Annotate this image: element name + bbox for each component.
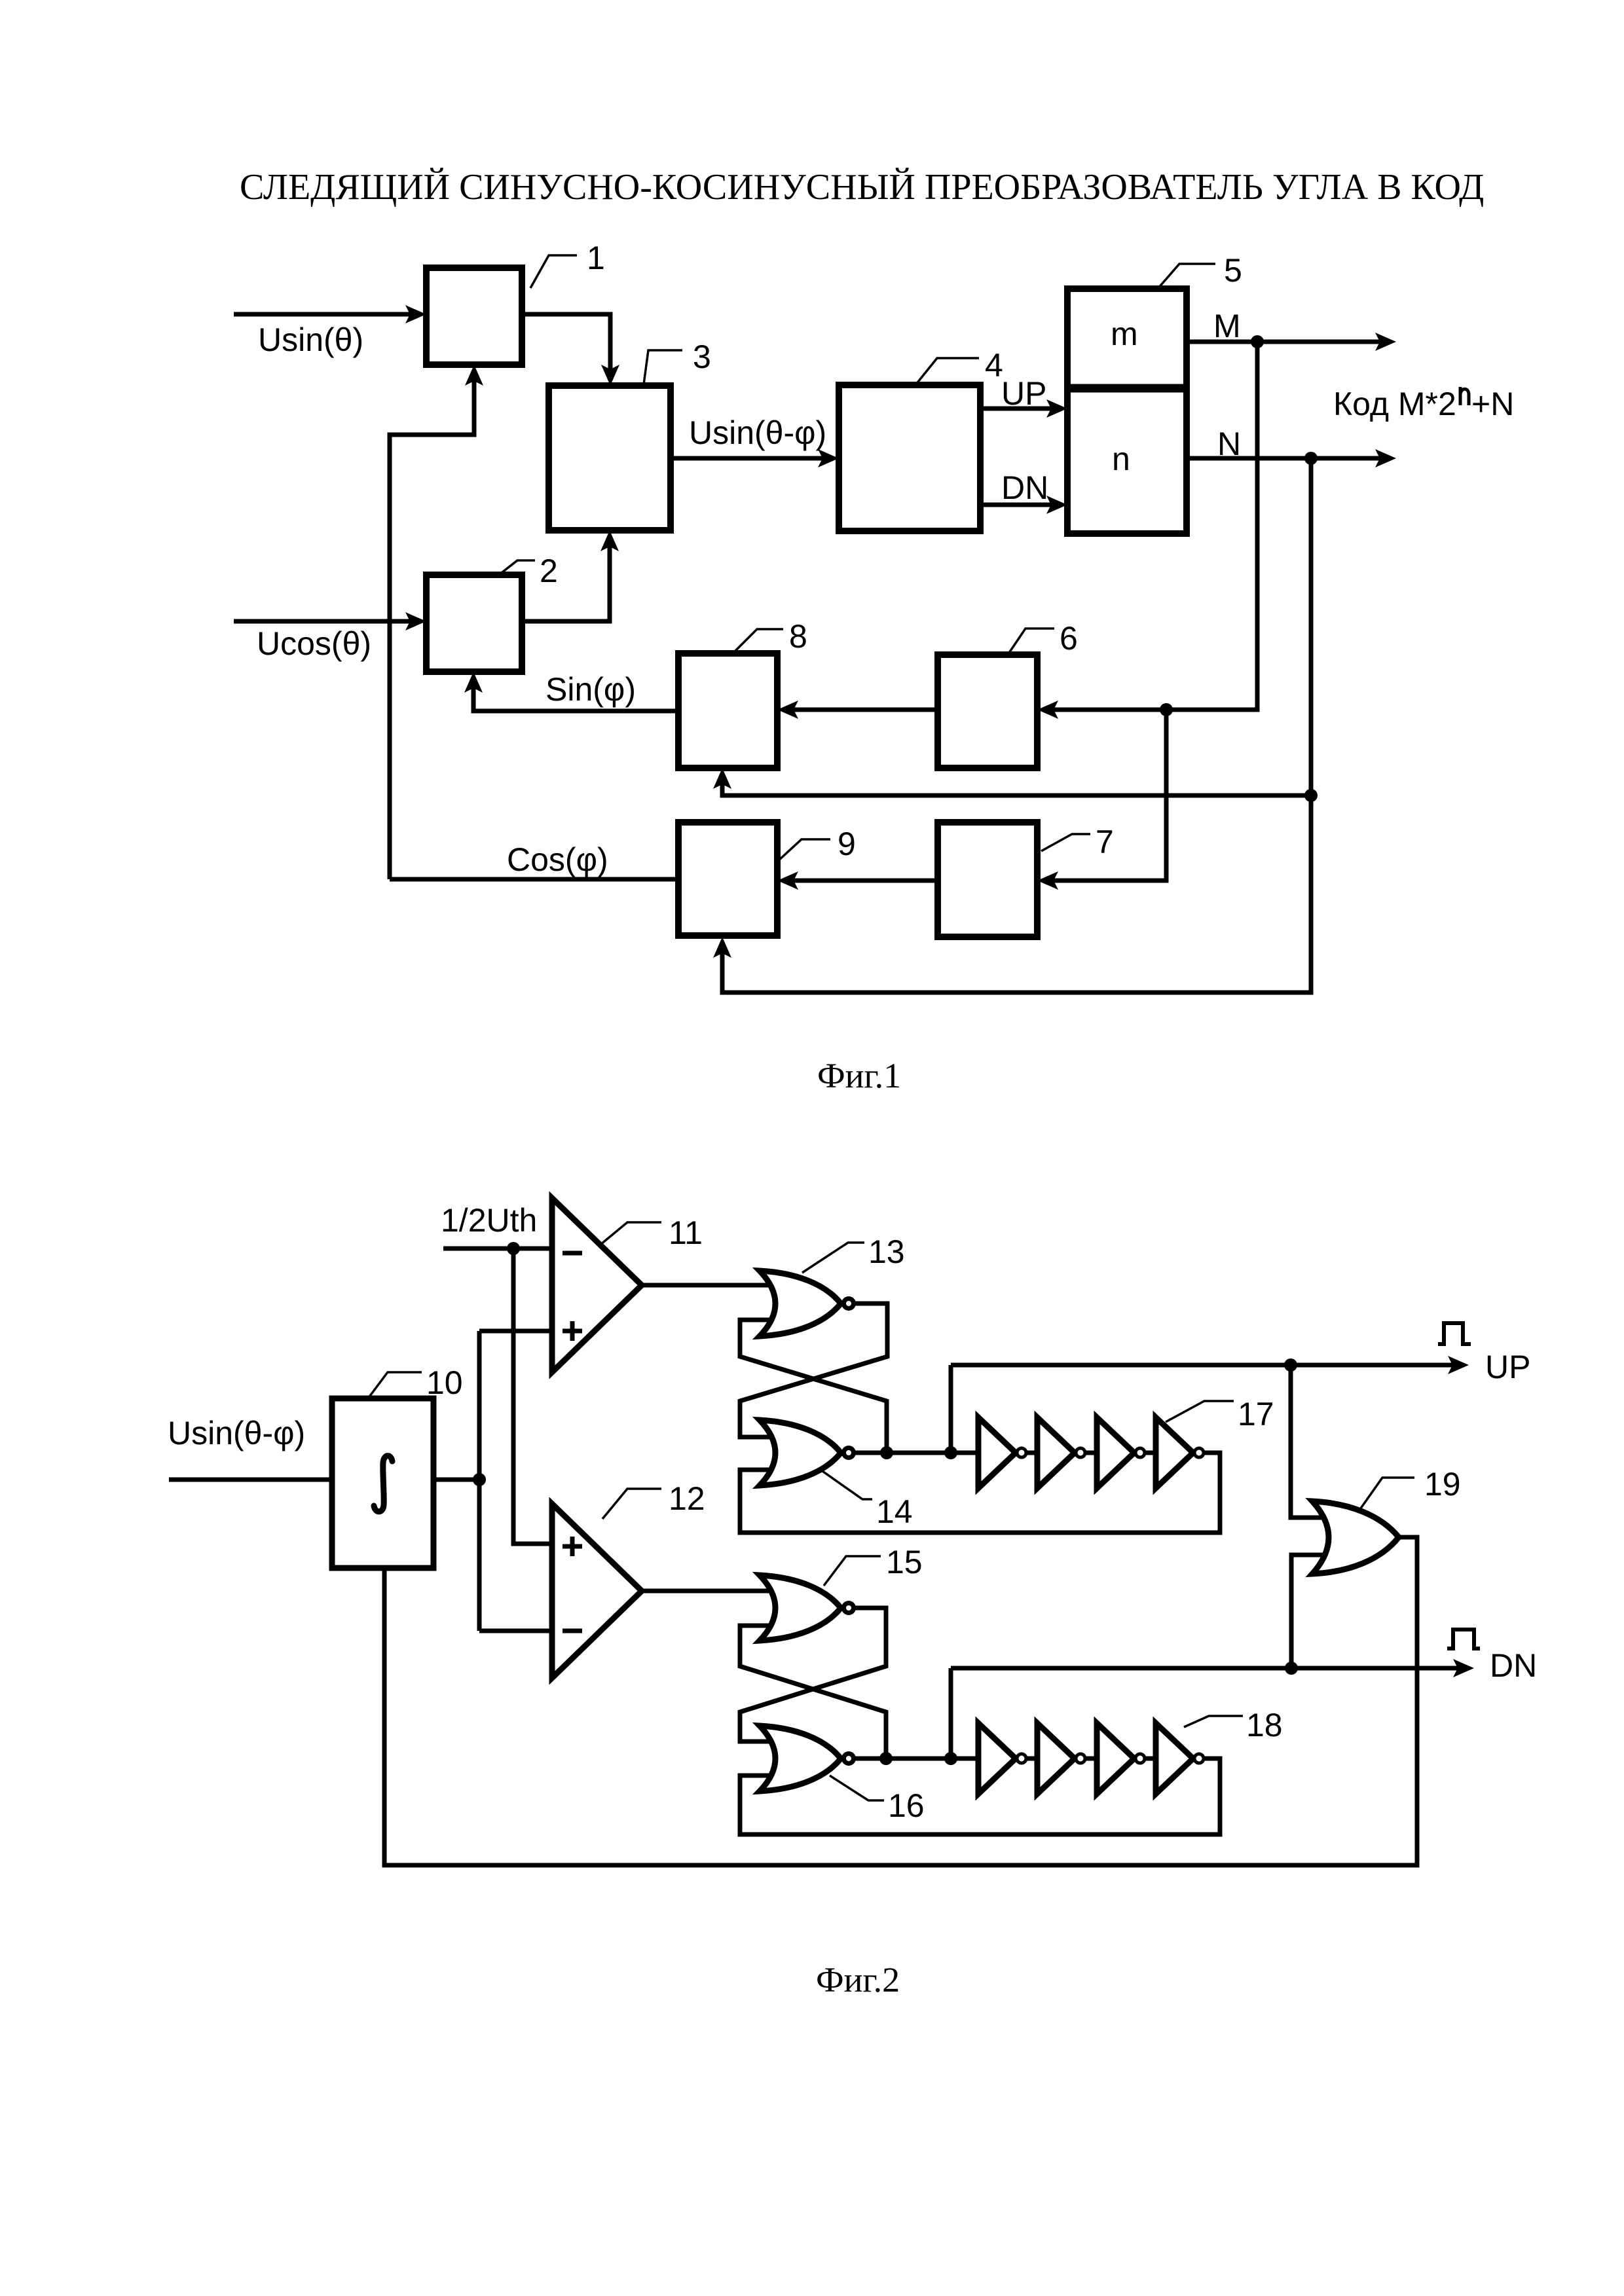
svg-text:18: 18 <box>1246 1707 1283 1743</box>
svg-text:UP: UP <box>1485 1349 1530 1385</box>
svg-text:Usin(θ-φ): Usin(θ-φ) <box>689 414 826 451</box>
svg-text:11: 11 <box>669 1214 703 1251</box>
svg-text:Usin(θ-φ): Usin(θ-φ) <box>168 1415 305 1451</box>
svg-text:Ucos(θ): Ucos(θ) <box>257 625 371 662</box>
svg-text:Код М*2: Код М*2 <box>1333 386 1456 422</box>
svg-text:19: 19 <box>1424 1466 1461 1503</box>
svg-text:7: 7 <box>1096 824 1114 860</box>
svg-text:10: 10 <box>426 1364 463 1401</box>
svg-text:9: 9 <box>838 826 856 862</box>
svg-text:Фиг.2: Фиг.2 <box>816 1960 900 1999</box>
svg-text:16: 16 <box>888 1787 925 1824</box>
svg-text:17: 17 <box>1238 1396 1274 1432</box>
svg-text:N: N <box>1217 426 1241 462</box>
svg-text:6: 6 <box>1060 620 1078 657</box>
svg-text:DN: DN <box>1490 1647 1537 1684</box>
svg-text:+N: +N <box>1471 386 1514 422</box>
svg-text:СЛЕДЯЩИЙ СИНУСНО-КОСИНУСНЫЙ ПР: СЛЕДЯЩИЙ СИНУСНО-КОСИНУСНЫЙ ПРЕОБРАЗОВАТ… <box>240 167 1484 208</box>
svg-text:1: 1 <box>587 240 605 276</box>
svg-text:2: 2 <box>540 553 558 589</box>
svg-text:8: 8 <box>789 618 807 655</box>
svg-text:Sin(φ): Sin(φ) <box>545 671 636 708</box>
svg-text:5: 5 <box>1224 252 1242 289</box>
svg-text:M: M <box>1213 308 1241 344</box>
svg-text:DN: DN <box>1001 469 1048 506</box>
svg-text:12: 12 <box>669 1480 705 1517</box>
svg-text:Фиг.1: Фиг.1 <box>817 1056 901 1095</box>
svg-text:13: 13 <box>868 1233 905 1270</box>
svg-text:14: 14 <box>876 1493 913 1530</box>
svg-text:1/2Uth: 1/2Uth <box>441 1202 537 1239</box>
svg-text:4: 4 <box>985 347 1003 384</box>
svg-text:UP: UP <box>1001 375 1046 412</box>
svg-text:n: n <box>1112 441 1130 477</box>
svg-text:3: 3 <box>693 338 711 375</box>
svg-text:Usin(θ): Usin(θ) <box>258 321 363 358</box>
svg-text:Cos(φ): Cos(φ) <box>507 841 608 878</box>
svg-text:15: 15 <box>886 1544 923 1580</box>
svg-text:m: m <box>1111 316 1138 352</box>
